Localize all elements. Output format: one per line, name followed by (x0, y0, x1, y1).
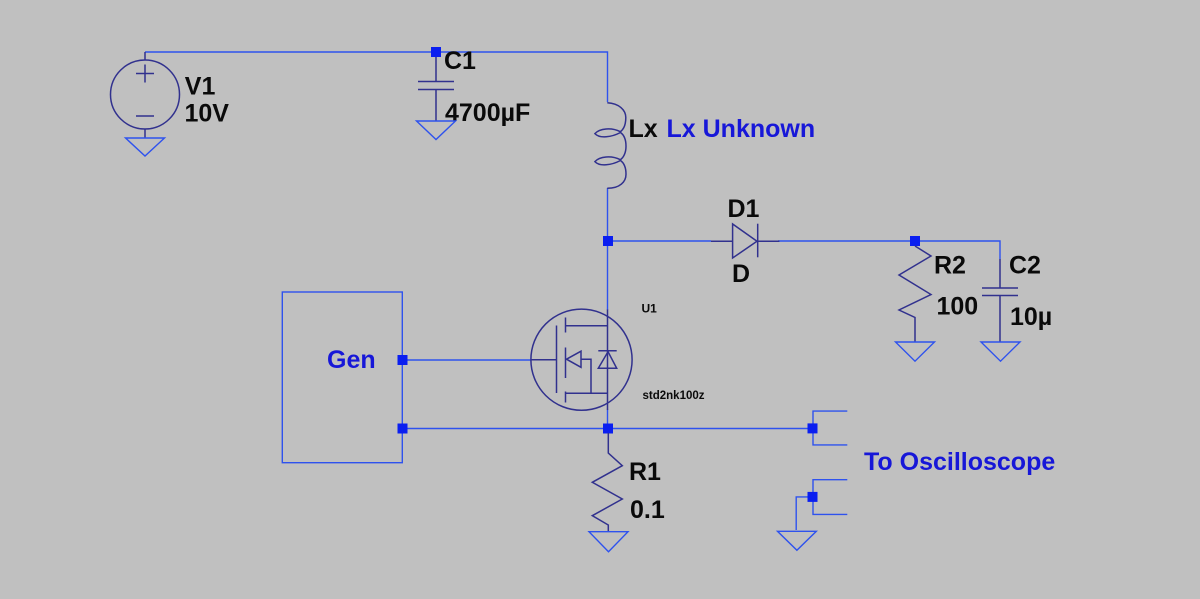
svg-text:0.1: 0.1 (630, 496, 665, 524)
mosfet U1 (531, 309, 632, 410)
svg-text:C2: C2 (1009, 252, 1041, 280)
svg-text:Gen: Gen (327, 346, 376, 374)
wire bottom rail Gen to probe (403, 428, 814, 430)
svg-text:R2: R2 (934, 252, 966, 280)
probe symbol bottom (813, 480, 847, 515)
wire top rail V1 to C1 to inductor corner (145, 52, 608, 102)
wire diode rail left segment (608, 240, 711, 242)
svg-text:10V: 10V (185, 99, 230, 127)
resistor R2 (899, 246, 931, 342)
wire probe2 node to ground (796, 497, 813, 530)
node at mosfet source on bottom rail (603, 424, 613, 434)
wire diode rail right segment to R2/C2 corner (778, 241, 1000, 259)
svg-text:100: 100 (937, 293, 979, 321)
inductor Lx (595, 103, 626, 189)
svg-text:D: D (732, 260, 750, 288)
svg-text:To Oscilloscope: To Oscilloscope (864, 448, 1055, 476)
svg-text:C1: C1 (444, 47, 476, 75)
ground under R1 (589, 532, 628, 552)
svg-text:std2nk100z: std2nk100z (643, 390, 705, 402)
wire inductor bottom to mosfet drain (607, 188, 609, 310)
ground under R2 (896, 342, 935, 361)
node probe bottom (808, 492, 818, 502)
svg-text:V1: V1 (185, 73, 216, 101)
svg-text:D1: D1 (728, 195, 760, 223)
node Gen gate port (398, 355, 408, 365)
svg-text:4700µF: 4700µF (445, 99, 530, 127)
node probe top (808, 423, 818, 433)
capacitor C1 (418, 57, 454, 121)
node at R2 top (910, 236, 920, 246)
node at C1 top (431, 47, 441, 57)
ground under C2 (981, 342, 1020, 361)
node Gen bottom port (398, 424, 408, 434)
Gen block (282, 292, 402, 463)
resistor R1 (592, 433, 622, 532)
diode D1 (711, 224, 779, 258)
ground under C1 (417, 121, 456, 140)
capacitor C2 (982, 259, 1018, 342)
svg-text:10µ: 10µ (1010, 303, 1052, 331)
node at diode rail junction (603, 236, 613, 246)
ground under V1 (126, 138, 165, 156)
svg-text:Lx Unknown: Lx Unknown (667, 115, 816, 143)
svg-text:R1: R1 (629, 458, 661, 486)
svg-text:Lx: Lx (629, 115, 658, 143)
svg-text:U1: U1 (642, 302, 658, 316)
wire gate from Gen to mosfet (403, 359, 532, 361)
probe symbol top (813, 411, 847, 445)
voltage source V1 (111, 52, 180, 138)
wire mosfet source down to bottom rail (607, 410, 609, 429)
ground for probe (778, 531, 817, 550)
